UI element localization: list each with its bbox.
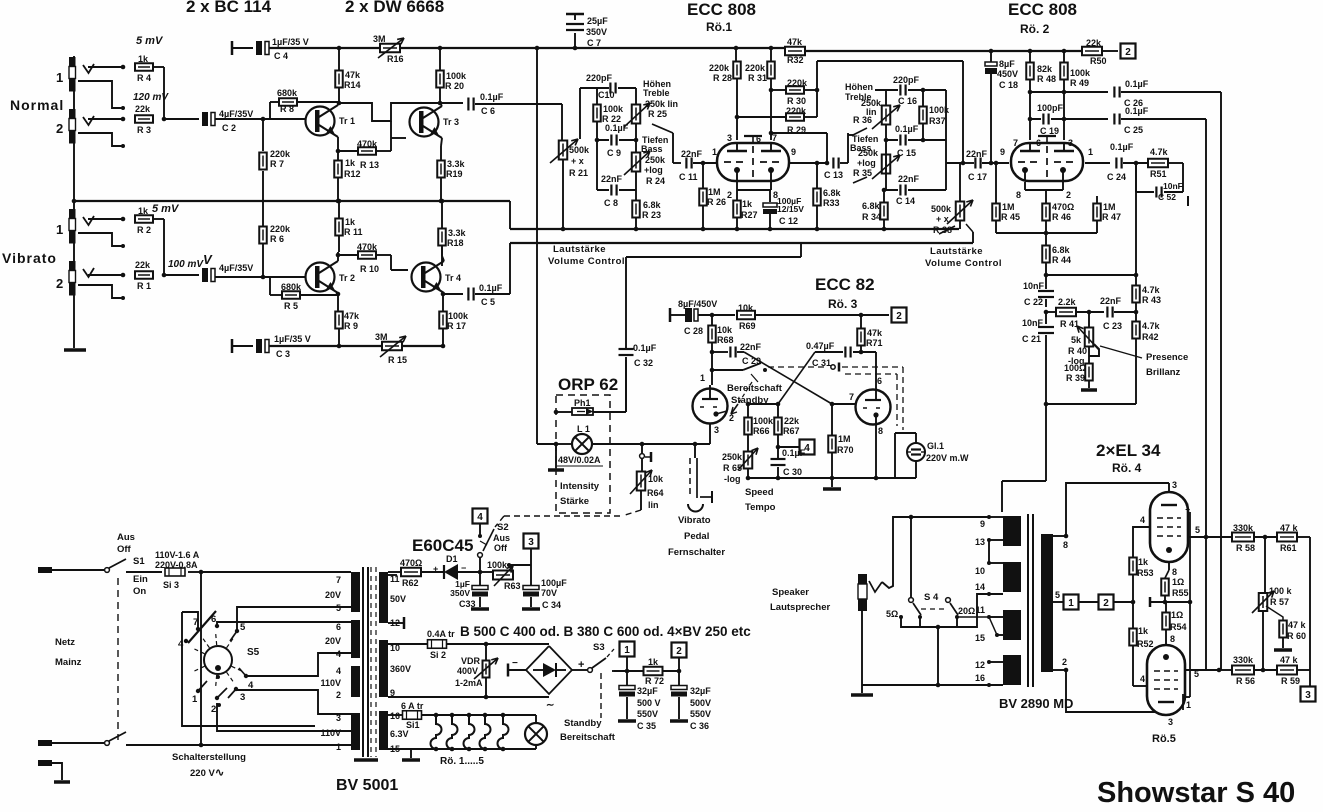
svg-text:2.2k: 2.2k xyxy=(1058,297,1077,307)
tube Ro.2 ECC808 xyxy=(1000,136,1093,200)
svg-text:100µF: 100µF xyxy=(541,578,567,588)
resistor R31 220k xyxy=(745,48,775,83)
wire stack1 top right xyxy=(618,87,636,89)
svg-text:R67: R67 xyxy=(783,426,800,436)
svg-text:R66: R66 xyxy=(753,426,770,436)
resistor R13 470k xyxy=(338,138,391,170)
switch S4a xyxy=(909,598,922,619)
svg-text:82k: 82k xyxy=(1037,64,1053,74)
svg-text:ORP 62: ORP 62 xyxy=(558,375,618,394)
wire R1 to C1 xyxy=(164,274,199,276)
wire Tr2 collector xyxy=(336,252,341,261)
svg-text:3: 3 xyxy=(1068,138,1073,148)
svg-text:1: 1 xyxy=(624,645,630,656)
wire C13 to stack2 xyxy=(840,133,848,163)
svg-text:1k: 1k xyxy=(1138,557,1149,567)
wire Ro4 pin1 xyxy=(1185,502,1192,604)
svg-text:C 24: C 24 xyxy=(1107,172,1126,182)
wire C2 to Tr1 base xyxy=(215,118,305,120)
svg-text:R14: R14 xyxy=(344,80,361,90)
capacitor C21 10nF xyxy=(1022,312,1054,404)
svg-text:Presence: Presence xyxy=(1146,352,1188,363)
svg-text:Rö. 3: Rö. 3 xyxy=(828,297,858,311)
resistor R10 470k xyxy=(338,242,408,274)
wire R3 to C2 xyxy=(164,118,199,120)
wire R50 to term2 xyxy=(1102,50,1118,52)
svg-text:C 32: C 32 xyxy=(634,358,653,368)
svg-text:R19: R19 xyxy=(446,169,463,179)
svg-text:2×EL 34: 2×EL 34 xyxy=(1096,441,1161,460)
wire Tr4 collector xyxy=(442,246,444,261)
wire pin9 line xyxy=(789,161,829,166)
resistor R33 6.8k xyxy=(813,163,841,231)
wire x537 to L1 xyxy=(537,443,556,445)
wire C29 diag to right grid xyxy=(737,352,832,404)
svg-text:ECC 808: ECC 808 xyxy=(1008,0,1077,19)
svg-text:R70: R70 xyxy=(837,445,854,455)
wire Ro4 g2 pin4 xyxy=(1133,515,1150,558)
svg-text:1k: 1k xyxy=(345,217,356,227)
svg-text:7: 7 xyxy=(1013,138,1018,148)
wire cathode node line xyxy=(996,231,1097,236)
svg-text:Vibrato: Vibrato xyxy=(2,250,57,266)
resistor R46 470 xyxy=(1042,196,1074,233)
svg-text:5: 5 xyxy=(240,622,246,633)
node R17 bottom xyxy=(441,344,446,349)
svg-text:S5: S5 xyxy=(247,647,260,658)
tube Ro.3a triode xyxy=(693,373,735,444)
label Vibrato Pedal xyxy=(668,515,725,558)
svg-text:C 23: C 23 xyxy=(1103,321,1122,331)
tube Ro.1 ECC808 xyxy=(703,133,805,200)
svg-text:470Ω: 470Ω xyxy=(1052,202,1074,212)
svg-text:Tr 2: Tr 2 xyxy=(339,273,355,283)
label Speed Tempo xyxy=(745,487,776,513)
svg-text:Bass: Bass xyxy=(641,144,663,154)
svg-text:20V: 20V xyxy=(325,636,341,646)
resistor R60 47k xyxy=(1279,620,1306,648)
wire cathode return xyxy=(1066,670,1166,716)
svg-text:4.7k: 4.7k xyxy=(1142,285,1161,295)
svg-text:R 28: R 28 xyxy=(713,73,732,83)
switch standby xyxy=(743,363,767,372)
svg-text:6 A tr: 6 A tr xyxy=(401,701,424,711)
svg-text:R 21: R 21 xyxy=(569,168,588,178)
svg-text:47 k: 47 k xyxy=(1280,655,1299,665)
potentiometer R21 500k xyxy=(550,88,590,231)
resistor R37 100k xyxy=(919,90,950,140)
resistor R67 22k xyxy=(774,404,800,436)
svg-text:Vibrato: Vibrato xyxy=(678,515,711,526)
capacitor C5 0.1uF xyxy=(468,283,502,307)
wire mains bottom xyxy=(126,743,351,748)
node R7 top xyxy=(261,117,266,122)
svg-text:1k: 1k xyxy=(138,206,149,216)
resistor R14 47k xyxy=(335,48,361,90)
svg-text:12/15V: 12/15V xyxy=(777,204,804,214)
svg-text:5 mV: 5 mV xyxy=(152,203,180,215)
svg-text:C 52: C 52 xyxy=(1158,192,1176,202)
svg-text:R 3: R 3 xyxy=(137,125,151,135)
svg-text:C 19: C 19 xyxy=(1040,126,1059,136)
terminal 1 output xyxy=(1064,595,1079,610)
svg-text:R18: R18 xyxy=(447,238,464,248)
capacitor C32 0.1uF xyxy=(619,343,657,412)
capacitor C19 100pF xyxy=(1037,103,1064,136)
label 2 x DW 6668 xyxy=(345,0,444,16)
label Aus Off xyxy=(117,532,135,555)
dashed mains divider xyxy=(117,578,119,740)
capacitor C6 0.1uF xyxy=(468,92,503,116)
capacitor C2 4uF/35V xyxy=(202,109,253,133)
svg-text:2 x BC 114: 2 x BC 114 xyxy=(186,0,272,16)
resistor R8 680k xyxy=(270,88,338,119)
svg-text:680k: 680k xyxy=(277,88,298,98)
svg-text:1M: 1M xyxy=(1002,202,1015,212)
wire volume stub y257 xyxy=(626,243,801,257)
node C29 xyxy=(710,350,715,355)
wire C26 line xyxy=(1030,91,1108,93)
svg-text:1: 1 xyxy=(56,70,63,85)
svg-text:2: 2 xyxy=(56,276,63,291)
svg-text:120 mV: 120 mV xyxy=(133,92,169,103)
svg-text:R 40: R 40 xyxy=(1068,346,1087,356)
capacitor C36 32uF xyxy=(671,671,711,731)
svg-text:500V: 500V xyxy=(690,698,711,708)
resistor R30 220k xyxy=(771,78,817,106)
capacitor C22 10nF xyxy=(1023,275,1054,307)
wire supply line y201 xyxy=(72,199,510,204)
node C18 rail xyxy=(989,49,994,54)
wire C25 line xyxy=(1064,118,1108,120)
svg-text:110V-1.6 A: 110V-1.6 A xyxy=(155,550,200,560)
svg-text:∿: ∿ xyxy=(215,767,224,779)
label ORP 62 xyxy=(558,375,618,394)
svg-text:2: 2 xyxy=(336,690,341,700)
svg-text:R 20: R 20 xyxy=(445,81,464,91)
svg-text:R 39: R 39 xyxy=(1066,373,1085,383)
svg-text:0.1µF: 0.1µF xyxy=(480,92,504,102)
svg-text:220 V: 220 V xyxy=(190,768,215,779)
wire vjack1 shorting xyxy=(78,233,125,248)
transformer BV2890 secondary xyxy=(1041,534,1053,672)
mains plug ground xyxy=(38,760,70,782)
node R64 tap xyxy=(640,442,645,447)
svg-text:3M: 3M xyxy=(373,34,386,44)
svg-text:6: 6 xyxy=(336,622,341,632)
svg-text:47k: 47k xyxy=(867,328,883,338)
ground osc xyxy=(823,478,841,489)
svg-text:12: 12 xyxy=(975,660,985,670)
wire C17 to pin9 xyxy=(982,161,1009,166)
svg-text:R 46: R 46 xyxy=(1052,212,1071,222)
pedal jack xyxy=(688,442,712,512)
svg-text:V: V xyxy=(203,252,213,267)
wire 20ohm tap xyxy=(957,616,1003,618)
svg-text:Pedal: Pedal xyxy=(684,531,709,542)
wire S5 contact4r xyxy=(245,653,351,676)
potentiometer R38 500k xyxy=(931,163,973,235)
svg-text:100k: 100k xyxy=(753,416,774,426)
svg-text:R33: R33 xyxy=(823,198,840,208)
svg-text:R 47: R 47 xyxy=(1102,212,1121,222)
svg-text:R 34: R 34 xyxy=(862,212,881,222)
svg-text:220pF: 220pF xyxy=(586,73,613,83)
wire R63 wiper line xyxy=(507,563,531,567)
switch S4b xyxy=(946,598,959,619)
node R48 rail xyxy=(1028,49,1033,54)
svg-text:C 13: C 13 xyxy=(824,170,843,180)
svg-text:5: 5 xyxy=(1194,669,1199,679)
ground C35 xyxy=(618,719,636,723)
wire standby line xyxy=(712,352,743,385)
transistor Tr2 xyxy=(306,261,356,293)
svg-text:lin: lin xyxy=(648,500,659,510)
wire 360V top xyxy=(388,643,427,645)
wire B node xyxy=(614,669,681,674)
svg-text:220k: 220k xyxy=(745,63,766,73)
label E60C45 xyxy=(412,536,473,555)
svg-text:Speed: Speed xyxy=(745,487,774,498)
potentiometer R35 250k log xyxy=(853,140,900,179)
svg-text:0.1µF: 0.1µF xyxy=(633,343,657,353)
svg-text:1M: 1M xyxy=(708,187,721,197)
svg-text:470k: 470k xyxy=(357,242,378,252)
resistor R45 1M xyxy=(992,161,1020,233)
capacitor C11 22nF xyxy=(679,149,703,182)
svg-text:Aus: Aus xyxy=(493,533,510,543)
wire fuse to transformer xyxy=(188,570,351,575)
label BV 2890 MD xyxy=(999,696,1073,711)
svg-text:2 x DW 6668: 2 x DW 6668 xyxy=(345,0,444,16)
terminal 4 mid xyxy=(800,440,815,455)
svg-text:R 31: R 31 xyxy=(748,73,767,83)
svg-text:32µF: 32µF xyxy=(637,686,658,696)
resistor R28 220k xyxy=(709,48,741,83)
svg-text:22k: 22k xyxy=(135,104,151,114)
wire 360V bottom xyxy=(388,695,549,700)
svg-text:C 35: C 35 xyxy=(637,721,656,731)
svg-text:450V: 450V xyxy=(997,69,1018,79)
potentiometer R25 250k lin xyxy=(624,79,678,127)
svg-text:Aus: Aus xyxy=(117,532,135,543)
bridge rectifier xyxy=(508,646,584,711)
svg-text:VDR: VDR xyxy=(461,656,481,666)
node R33 top xyxy=(815,161,820,166)
resistor R20 100k xyxy=(436,48,467,91)
rotary switch S5 xyxy=(178,441,1316,809)
svg-text:4: 4 xyxy=(336,649,341,659)
resistor R51 4.7k xyxy=(1148,147,1169,179)
svg-text:14: 14 xyxy=(975,582,985,592)
svg-text:R62: R62 xyxy=(402,578,419,588)
svg-text:10nF: 10nF xyxy=(1022,318,1044,328)
wire heater top xyxy=(422,714,536,716)
label Hoehen Treble 2 xyxy=(845,82,873,102)
label 2 x BC 114 xyxy=(186,0,272,16)
svg-text:R 45: R 45 xyxy=(1001,212,1020,222)
wire Ro4 grid1 pin5 xyxy=(1188,525,1208,670)
resistor R56 330k xyxy=(1219,655,1255,686)
wire Si2 to bridge xyxy=(447,642,549,647)
svg-text:R69: R69 xyxy=(739,321,756,331)
mains plug lower xyxy=(38,740,105,746)
svg-text:110V: 110V xyxy=(320,728,341,738)
wire S5 frame xyxy=(182,612,315,726)
label B500C400 xyxy=(460,624,751,639)
svg-text:5k: 5k xyxy=(1071,335,1082,345)
svg-text:Höhen: Höhen xyxy=(845,82,873,92)
svg-text:6.8k: 6.8k xyxy=(1052,245,1071,255)
svg-text:Si 2: Si 2 xyxy=(430,650,446,660)
wire jack1 shorting xyxy=(78,81,125,110)
wire heater bottom xyxy=(388,748,536,750)
svg-text:0.1µF: 0.1µF xyxy=(479,283,503,293)
label Lautstaerke left xyxy=(548,244,625,267)
ground R60 xyxy=(1274,648,1292,652)
terminal 3 bottom xyxy=(524,534,539,566)
svg-text:220V m.W: 220V m.W xyxy=(926,453,969,463)
svg-text:3.3k: 3.3k xyxy=(447,159,466,169)
resistor R22 100k xyxy=(593,88,624,140)
wire bottom rail xyxy=(269,345,443,347)
svg-text:R16: R16 xyxy=(387,54,404,64)
resistor R1 22k xyxy=(135,260,153,291)
wire R48 col xyxy=(1028,80,1033,140)
svg-text:R51: R51 xyxy=(1150,169,1167,179)
capacitor C4 1uF/35V xyxy=(232,37,309,61)
label Lautstaerke right xyxy=(925,246,1002,269)
svg-text:32µF: 32µF xyxy=(690,686,711,696)
wire Tr4 emitter xyxy=(441,292,446,311)
svg-text:R32: R32 xyxy=(787,55,804,65)
svg-text:E60C45: E60C45 xyxy=(412,536,473,555)
node vjack1 xyxy=(121,217,126,222)
svg-text:1M: 1M xyxy=(838,434,851,444)
wire volume bus y243 xyxy=(510,243,973,294)
svg-text:22nF: 22nF xyxy=(898,174,920,184)
svg-text:Standby: Standby xyxy=(564,718,602,729)
heater Ro1 xyxy=(431,713,442,752)
svg-text:48V/0.02A: 48V/0.02A xyxy=(558,455,601,465)
resistor R66 100k xyxy=(744,404,774,450)
wire R67 to C30 xyxy=(776,434,799,449)
wire vjack1 tip xyxy=(88,218,122,220)
svg-text:8: 8 xyxy=(1016,190,1021,200)
resistor R9 47k xyxy=(335,311,360,346)
svg-text:9: 9 xyxy=(791,147,796,157)
wire speaker to sec xyxy=(882,515,989,588)
svg-text:1-2mA: 1-2mA xyxy=(455,678,483,688)
capacitor C8 22nF xyxy=(601,174,623,208)
svg-text:0.1µF: 0.1µF xyxy=(1125,79,1149,89)
svg-text:R 23: R 23 xyxy=(642,210,661,220)
potentiometer R65 250k xyxy=(722,448,758,484)
svg-text:220k: 220k xyxy=(709,63,730,73)
svg-text:1: 1 xyxy=(336,742,341,752)
wire 50V tap to R62 xyxy=(388,571,401,573)
svg-text:8µF/450V: 8µF/450V xyxy=(678,299,717,309)
wire pri tap 10 xyxy=(975,561,1003,576)
svg-text:R 43: R 43 xyxy=(1142,295,1161,305)
label fuse rating xyxy=(155,550,200,570)
transformer primary winding 3 xyxy=(320,666,360,700)
svg-text:1M: 1M xyxy=(1103,202,1116,212)
wire cathode line A xyxy=(1078,600,1135,605)
ground core xyxy=(354,758,378,762)
svg-text:R 35: R 35 xyxy=(853,168,872,178)
wire Tr3 emitter xyxy=(441,138,442,160)
svg-text:100 k: 100 k xyxy=(1269,586,1293,596)
svg-text:On: On xyxy=(133,586,146,597)
svg-text:3: 3 xyxy=(1305,690,1311,701)
svg-text:250k lin: 250k lin xyxy=(645,99,678,109)
label ECC 808 Ro.1 xyxy=(687,0,756,34)
svg-text:3.3k: 3.3k xyxy=(448,228,467,238)
wire ground bus y229 xyxy=(510,228,959,230)
svg-text:C 14: C 14 xyxy=(896,196,915,206)
svg-text:6: 6 xyxy=(877,376,882,386)
ground C34 xyxy=(522,607,540,611)
svg-text:500k: 500k xyxy=(931,204,952,214)
wire S5 contact5 xyxy=(237,607,351,631)
terminal 4 bottom xyxy=(473,509,488,539)
svg-text:47 k: 47 k xyxy=(1288,620,1307,630)
ground heater xyxy=(402,749,420,760)
wire screen feed xyxy=(1066,483,1169,536)
potentiometer R64 10k lin xyxy=(630,459,664,510)
svg-text:47 k: 47 k xyxy=(1280,523,1299,533)
capacitor C26 0.1uF xyxy=(1114,79,1148,108)
transistor Tr4 xyxy=(412,261,462,293)
wire Ro5 grid pin5 xyxy=(1184,668,1221,679)
wire jack ground rail xyxy=(73,56,75,348)
wire R38 wiper xyxy=(939,224,973,243)
capacitor C12 100uF xyxy=(763,190,804,231)
svg-text:22nF: 22nF xyxy=(681,149,703,159)
wire Ph1 riser xyxy=(625,360,627,412)
potentiometer R63 100k xyxy=(480,560,521,591)
label Ein On xyxy=(133,574,148,597)
node standby xyxy=(710,368,715,373)
wire R57 wiper to R60 xyxy=(1266,606,1283,620)
resistor R44 6.8k xyxy=(1042,233,1071,275)
svg-text:100k: 100k xyxy=(446,71,467,81)
svg-text:4: 4 xyxy=(477,512,483,523)
resistor R17 100k xyxy=(439,311,469,346)
wire taps bus xyxy=(901,594,989,627)
wire osc bottom bus xyxy=(746,476,916,481)
wire jack1 tip xyxy=(88,66,122,68)
wire C26 to x1221 xyxy=(1121,92,1221,670)
resistor R5 680k xyxy=(270,277,338,311)
node R19 bottom xyxy=(439,199,444,204)
svg-text:R 17: R 17 xyxy=(447,321,466,331)
transformer secondary 360V xyxy=(379,640,411,698)
wire R2 to R1 node xyxy=(152,219,164,275)
svg-text:D1: D1 xyxy=(446,554,458,564)
svg-text:R42: R42 xyxy=(1142,332,1159,342)
wire R40 wiper xyxy=(1089,344,1099,356)
transistor Tr1 xyxy=(306,105,356,137)
svg-text:+log: +log xyxy=(857,158,876,168)
potentiometer R36 250k lin xyxy=(853,98,900,129)
wire S5 contact3 xyxy=(236,690,351,714)
svg-text:20Ω: 20Ω xyxy=(958,606,975,616)
svg-text:Rö. 2: Rö. 2 xyxy=(1020,22,1050,36)
node jack2 xyxy=(121,117,126,122)
node R14 rail xyxy=(337,46,342,51)
